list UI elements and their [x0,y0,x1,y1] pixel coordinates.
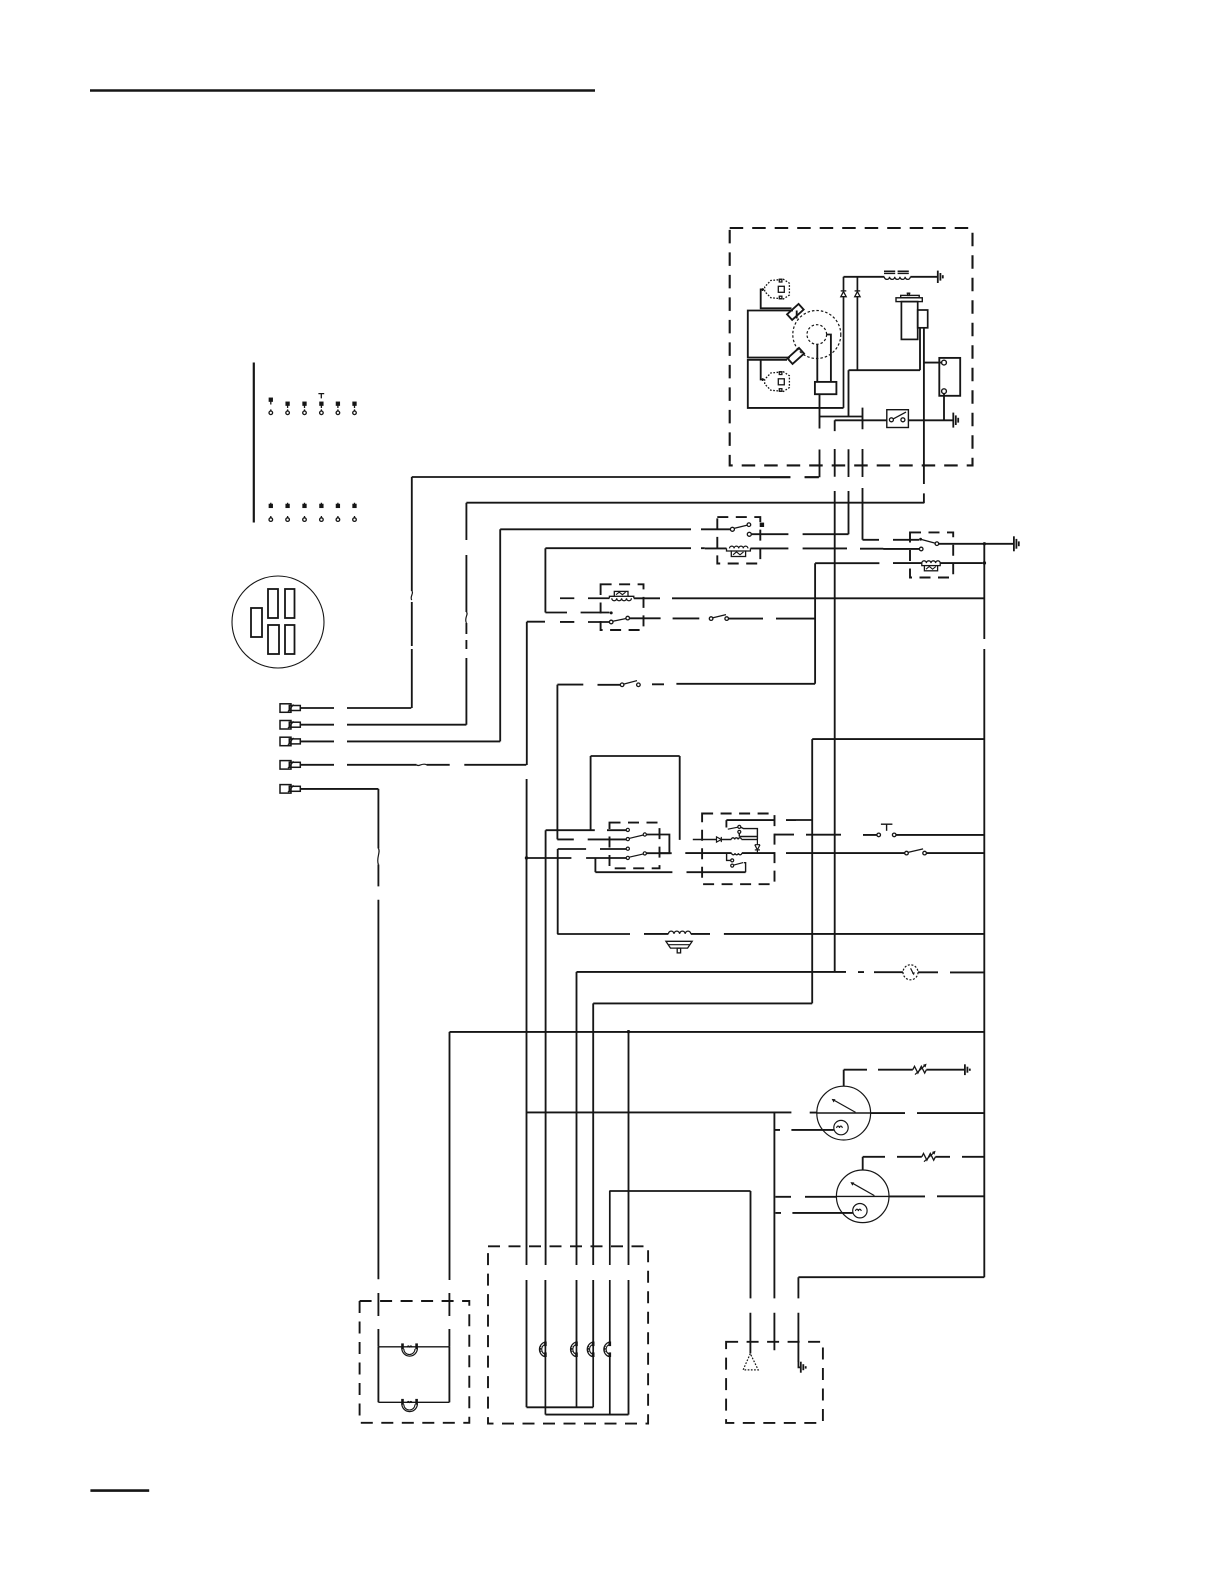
wire exit 2 (engine to hour meter bus) [834,420,836,972]
connector J1 pin row [269,398,356,414]
flasher lower switch [727,853,746,872]
wire temp gauge row to horn [749,1191,751,1353]
lamp bulb LP4 [571,1342,578,1408]
bullet connector B1 [280,704,300,713]
connector J1 T mark [318,394,324,399]
wire B1 to engine (magneto lead) [301,477,819,708]
starter solenoid contacts [924,358,960,420]
temp gauge lamp wire [775,1212,852,1214]
wire plug P1 to ignition coil [761,289,792,308]
ground G2 (switch) [953,413,958,428]
ground G1 (charge coil) [938,271,943,283]
choke and chassis ground [557,931,984,953]
relay B (starter relay) [893,532,1014,577]
title rule [90,89,595,92]
lamp bulb LP5 [587,1342,594,1408]
flasher upper switch [728,825,741,833]
bullet connector B5 [280,785,300,794]
wire B5 down to left lamp box [301,789,380,1347]
lamp bulb LP1 [378,1343,449,1356]
middle lamp box [488,1246,648,1423]
key switch connector [232,576,324,668]
engine dashed enclosure [730,228,973,465]
lamp bulb LP3 [539,1342,546,1415]
relay C (main relay) [527,584,985,630]
stator frame upper [748,311,797,358]
wire key relay bottom to lamp feed (via flasher node) [593,1003,812,1342]
bullet connector B3 [280,737,300,746]
right bus [798,544,984,1277]
wire B2 to engine via relay row [301,503,925,725]
left lamp box [360,1301,470,1423]
ignition coil T2 (lower) [787,348,804,364]
wire relay C arm node down (to key relay and lamps) [525,622,528,1408]
flasher internal node wires [739,827,757,839]
lamp bulb LP6 [604,1191,611,1415]
ground G3 (starter relay) [1014,536,1019,551]
horn [743,1354,758,1370]
wire plug P2 [761,360,764,379]
wire relay B coil to relay C switch node [815,563,879,684]
fuel gauge lamp wire [774,1112,833,1350]
starter motor M [896,293,928,339]
relay A (fuel pump relay) [705,517,920,563]
ignition module [815,382,837,394]
middle lamp bus bar A [527,1406,594,1408]
flasher lower coil on bus [732,853,742,855]
wire exit 3 (engine to relay A contact) [752,449,849,534]
hour meter [577,965,985,1342]
wire relay B node to inline switch S2 [557,681,815,840]
ground G5 (horn box) [798,1362,805,1373]
lamp box side wires [378,1347,449,1403]
wire key relay pin3 [558,849,627,934]
flasher module box [702,814,774,885]
stator frame lower / bottom wire [748,360,844,408]
spark plug P1 [763,279,790,299]
temp sender rheostat [863,1151,985,1170]
fuel gauge [527,1086,985,1140]
middle lamp bus bar B [545,1414,628,1416]
wire relay A coil to relay C contact [545,548,704,612]
wire flywheel to module [817,335,831,382]
wire key relay pin2 [557,838,626,840]
wire key relay pin1 [545,756,626,1342]
temp gauge [609,1170,984,1223]
key switch relay block [610,823,670,869]
wire flasher output bus (to inline switch S3 and right bus) [660,849,985,855]
flasher upper coil [731,838,757,840]
wire B3 to relay A arm [301,529,731,741]
stop pushbutton cap [881,824,893,831]
ignition coil T1 (upper) [787,304,804,320]
wire B4 to relay C arm node [301,764,527,765]
footer rule [90,1489,149,1492]
connector J2 pin row [269,503,356,522]
diode D1 [841,277,847,408]
wire exit 4 to starter relay arm [863,408,920,540]
wire flasher to stop button and right bus [775,833,985,837]
flywheel magneto [793,311,841,359]
charge coil L1 [844,271,938,279]
wire lamp feed top (to left lamp box) [449,1030,984,1415]
harness trunk line [253,363,255,523]
flasher input diode [693,837,732,842]
wire relay C switch to relay B coil node [630,615,816,621]
wire module down / exit 1 [760,394,820,477]
flasher zener diode [755,840,760,854]
lamp bulb LP2 [378,1399,449,1412]
flasher top wire [726,820,812,828]
wire horn ground drop [797,1277,799,1362]
horn box [726,1342,823,1423]
wire key relay output to flasher input [591,756,680,840]
wire key relay pin4 [527,858,746,872]
spark plug P2 [763,372,790,392]
diode D2 [855,277,861,370]
neutral start switch [835,410,953,428]
bullet connector B2 [280,721,300,730]
wire flasher top node to right bus [812,739,984,1003]
fuel sender rheostat and ground [844,1064,965,1087]
ground G4 (fuel sender) [965,1064,970,1075]
wire starter to solenoid / exit 5 [849,328,924,503]
wire module branch to exit 4 [820,416,863,418]
bullet connector B4 [280,761,300,770]
